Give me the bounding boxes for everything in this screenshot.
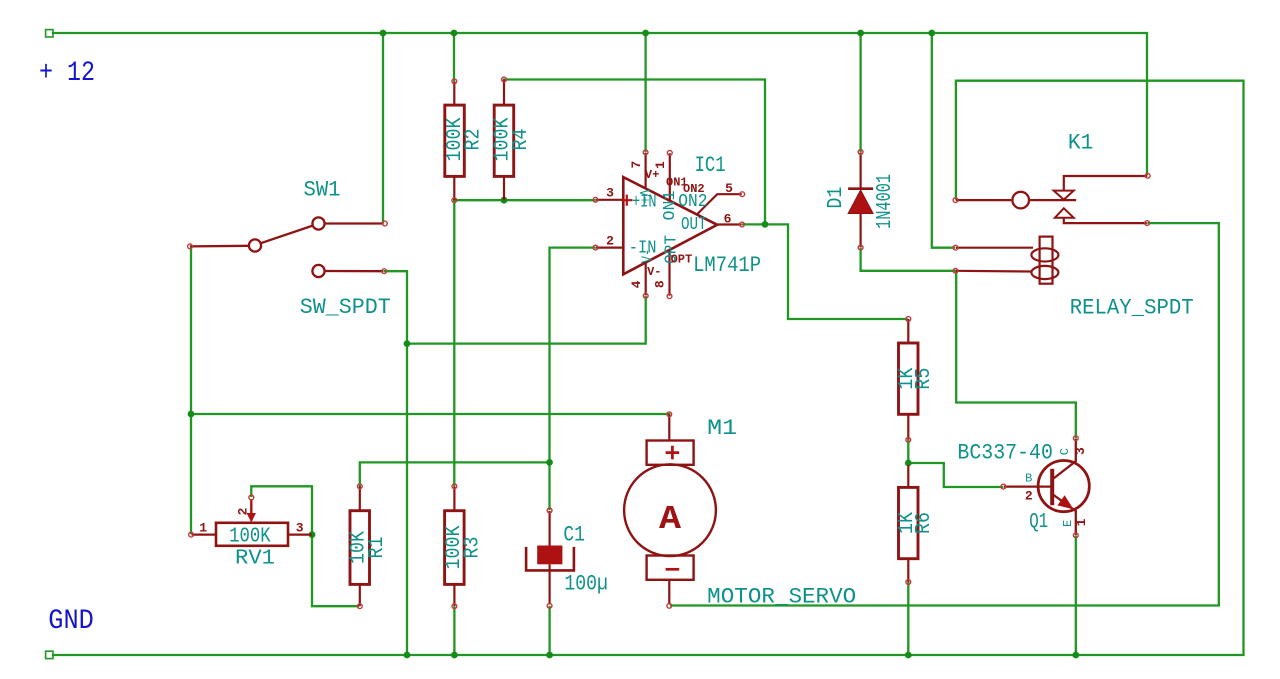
wire R5 bottom to R6 and Q1 base	[908, 441, 1002, 487]
wire R2/R4 bottom to pin 3	[454, 199, 594, 201]
diode D1	[825, 153, 897, 248]
svg-text:+ 12: + 12	[39, 58, 95, 89]
svg-text:ON2: ON2	[683, 182, 705, 196]
node RV1 pin3	[309, 531, 316, 538]
svg-text:4: 4	[629, 280, 644, 288]
node feedback-output	[762, 221, 769, 228]
pin Q1 emitter	[1073, 533, 1078, 538]
pin K1 coil A	[953, 245, 958, 250]
power flag +12	[46, 30, 53, 37]
svg-text:5: 5	[725, 181, 733, 196]
wire node to M1 plus	[191, 413, 669, 415]
svg-text:3: 3	[1073, 447, 1088, 455]
node GND-C1	[546, 652, 553, 659]
wire R4 top feedback to output	[504, 80, 765, 225]
pin 1 ON1	[669, 153, 671, 201]
wire M1 minus to relay throw	[671, 223, 1219, 605]
relay K1	[956, 131, 1194, 321]
node GND branch pin4	[404, 340, 411, 347]
wire C1 bottom to GND	[548, 607, 550, 655]
wire R1 top to C1 node	[360, 462, 550, 486]
pin R1 bottom	[357, 604, 362, 609]
svg-text:R6: R6	[913, 512, 936, 534]
svg-text:OPT: OPT	[671, 253, 693, 267]
node rail-pin7	[642, 30, 649, 37]
svg-text:V-: V-	[639, 249, 656, 263]
pin SW1 B	[382, 269, 387, 274]
pin SW1 A	[382, 221, 387, 226]
wire Q1 emitter to GND	[1075, 537, 1077, 656]
pin IC1-4	[643, 293, 648, 298]
transistor Q2 Q1	[957, 439, 1089, 535]
wire rail to pin 7	[644, 33, 646, 151]
pin IC1-1	[667, 151, 672, 156]
pin R2 top	[452, 79, 457, 84]
svg-text:1: 1	[653, 161, 668, 169]
pin R2 bottom	[452, 198, 457, 203]
pin 8 OPT	[668, 250, 670, 296]
node R1-C1	[546, 459, 553, 466]
pin K1 throw B	[1145, 221, 1150, 226]
svg-text:K1: K1	[1068, 131, 1094, 156]
svg-text:E: E	[1061, 520, 1075, 527]
svg-text:SW_SPDT: SW_SPDT	[300, 295, 391, 320]
pin R6 bottom	[906, 580, 911, 585]
resistor R6	[896, 465, 936, 582]
svg-text:8: 8	[652, 280, 667, 288]
wire R2 bottom to R3 top vertical	[453, 200, 455, 485]
pin IC1-7	[643, 150, 648, 155]
node rail-D1	[857, 30, 864, 37]
node R5-R6	[905, 460, 912, 467]
pin IC1-8	[667, 294, 672, 299]
svg-text:SW1: SW1	[304, 177, 341, 202]
svg-text:ON1: ON1	[661, 191, 680, 221]
pin R3 bottom	[452, 604, 457, 609]
svg-text:100K: 100K	[229, 525, 271, 548]
pin IC1-6	[740, 222, 745, 227]
svg-text:V+: V+	[635, 190, 652, 204]
pin C1 bottom	[547, 603, 552, 608]
wire R6 bottom to GND	[907, 583, 909, 655]
svg-text:V+: V+	[645, 168, 659, 182]
resistor R3	[443, 486, 485, 606]
wire rail to relay coil pin A	[932, 33, 954, 248]
svg-text:R2: R2	[463, 129, 486, 151]
resistor R4	[492, 80, 533, 201]
pin IC1-5	[740, 192, 745, 197]
pin C1 top	[547, 508, 552, 513]
svg-text:3: 3	[606, 185, 614, 200]
svg-text:2: 2	[606, 234, 614, 249]
node rail-SW1	[380, 30, 387, 37]
svg-text:R5: R5	[913, 368, 936, 390]
svg-text:1: 1	[1074, 518, 1089, 526]
svg-text:IC1: IC1	[695, 153, 726, 178]
pin IC1-2	[593, 245, 598, 250]
svg-text:C1: C1	[563, 523, 585, 548]
svg-text:6: 6	[724, 212, 732, 227]
svg-text:2: 2	[236, 507, 251, 515]
svg-text:RV1: RV1	[235, 548, 275, 571]
pin D1 top	[858, 150, 863, 155]
capacitor C1	[526, 511, 608, 605]
pin 6 output	[717, 223, 741, 225]
wire R3 bottom to GND	[453, 608, 455, 656]
wire top +12 rail	[53, 33, 1147, 174]
node GND-R6	[905, 652, 912, 659]
pin IC1-3	[593, 197, 598, 202]
resistor R5	[896, 319, 936, 440]
wire GND rail up to relay common	[53, 81, 1244, 655]
node R4 bottom	[501, 197, 508, 204]
pin K1 throw A	[1145, 173, 1150, 178]
wire coil pin B to Q1 collector	[956, 271, 1076, 437]
node rail-coil	[928, 30, 935, 37]
svg-text:R4: R4	[510, 129, 533, 151]
pin R1 top	[357, 484, 362, 489]
svg-text:M1: M1	[707, 416, 737, 441]
node GND-x407	[404, 652, 411, 659]
svg-text:1: 1	[199, 520, 207, 535]
node GND-Q1	[1072, 652, 1079, 659]
svg-text:3: 3	[296, 520, 304, 535]
svg-text:V-: V-	[647, 265, 661, 279]
potentiometer RV1	[192, 499, 312, 571]
wire pin 2 down to C1 top	[550, 248, 595, 509]
pin M1 plus	[667, 412, 672, 417]
svg-text:OUT: OUT	[681, 215, 707, 235]
node rail-R2	[451, 30, 458, 37]
svg-text:C: C	[1058, 448, 1072, 455]
node GND-R3	[451, 652, 458, 659]
wire SW throw B to GND vertical	[385, 271, 408, 655]
pin 2	[596, 247, 623, 249]
pin Q1 base	[1001, 484, 1006, 489]
pin R5 bottom	[906, 437, 911, 442]
pin R5 top	[906, 317, 911, 322]
svg-text:A: A	[659, 501, 681, 538]
pin 5	[697, 194, 742, 214]
motor M1	[624, 414, 856, 609]
resistor R1	[348, 486, 390, 606]
wire SW1 common down	[190, 248, 192, 533]
svg-text:7: 7	[629, 161, 644, 169]
wire GND branch to pin 4	[407, 297, 646, 344]
op-amp U1 IC1	[596, 153, 761, 296]
pin SW1 common	[188, 244, 193, 249]
svg-text:Q1: Q1	[1029, 511, 1048, 534]
svg-text:1N4001: 1N4001	[874, 174, 897, 229]
wire rail to R2 top	[453, 33, 455, 80]
pin M1 minus	[667, 603, 672, 608]
power flag GND	[46, 651, 53, 658]
svg-text:BC337-40: BC337-40	[957, 441, 1053, 466]
svg-text:100µ: 100µ	[564, 572, 608, 597]
svg-text:LM741P: LM741P	[693, 253, 761, 278]
pin RV1-1	[189, 532, 194, 537]
svg-text:2: 2	[1025, 489, 1033, 504]
pin 4 V-	[645, 262, 647, 295]
pin R3 top	[452, 484, 457, 489]
pin R4 top	[502, 77, 507, 82]
wire rail to SW1 throw A	[382, 33, 384, 222]
svg-text:B: B	[1025, 472, 1032, 486]
node SW1 common M1	[188, 411, 195, 418]
pin K1 common	[953, 198, 958, 203]
wire D1 bottom to coil pin B	[861, 249, 954, 271]
svg-text:GND: GND	[48, 606, 94, 637]
pin RV1-2	[249, 495, 254, 500]
wire RV1 wiper to pin3 to R1 bottom	[251, 486, 358, 606]
svg-text:MOTOR_SERVO: MOTOR_SERVO	[707, 584, 856, 609]
svg-text:R3: R3	[462, 537, 485, 559]
pin D1 bottom	[858, 245, 863, 250]
svg-text:D1: D1	[825, 187, 848, 209]
pin K1 coil B	[953, 268, 958, 273]
switch SW1	[190, 217, 384, 277]
pin Q1 collector	[1073, 436, 1078, 441]
wire rail to D1 top	[859, 33, 861, 151]
svg-text:R1: R1	[366, 537, 389, 559]
pin 3	[596, 199, 623, 201]
pin 7 V+	[644, 153, 646, 189]
resistor R2	[444, 81, 485, 200]
wire pin 6 out to R5 top	[743, 224, 907, 319]
svg-text:RELAY_SPDT: RELAY_SPDT	[1070, 296, 1194, 321]
